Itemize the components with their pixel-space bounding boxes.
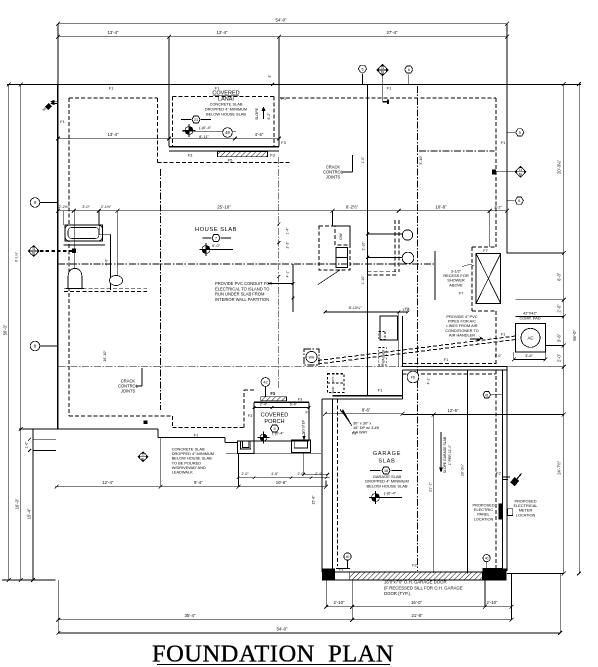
svg-text:16’-10”: 16’-10” <box>103 350 107 362</box>
svg-text:2’-1½”: 2’-1½” <box>101 205 112 209</box>
svg-text:21’-8”: 21’-8” <box>412 613 424 618</box>
svg-text:LOCATION: LOCATION <box>474 516 494 521</box>
svg-text:6’-0”: 6’-0” <box>556 272 561 281</box>
svg-text:F1: F1 <box>444 357 449 362</box>
svg-text:2’-10”: 2’-10” <box>334 600 346 605</box>
svg-text:2’-2”: 2’-2” <box>494 205 502 209</box>
svg-text:6’-1¼”: 6’-1¼” <box>15 251 19 262</box>
svg-text:27’-4”: 27’-4” <box>387 30 399 35</box>
svg-text:F3: F3 <box>188 153 193 158</box>
svg-text:3’-6”: 3’-6” <box>525 353 533 358</box>
svg-text:BELOW HOUSE SLAB: BELOW HOUSE SLAB <box>206 112 246 117</box>
svg-text:F1: F1 <box>405 307 409 311</box>
svg-text:40: 40 <box>485 557 489 561</box>
svg-text:SLOPE: SLOPE <box>255 107 259 120</box>
svg-text:OPT.: OPT. <box>331 376 335 383</box>
svg-text:8’-11”: 8’-11” <box>199 134 209 139</box>
svg-text:13’-4”: 13’-4” <box>108 30 120 35</box>
svg-text:LEADWALK: LEADWALK <box>172 470 193 475</box>
svg-text:WH: WH <box>309 356 315 360</box>
svg-text:B1: B1 <box>32 251 36 255</box>
svg-text:2’-10”: 2’-10” <box>487 600 499 605</box>
svg-text:F2: F2 <box>412 563 417 568</box>
svg-text:F3: F3 <box>270 391 274 395</box>
svg-text:(-)0’-4”: (-)0’-4” <box>384 491 397 496</box>
svg-text:(-)0’-4”: (-)0’-4” <box>272 431 284 435</box>
svg-text:24’-7½”: 24’-7½” <box>556 460 561 475</box>
svg-text:F1: F1 <box>501 332 506 337</box>
svg-text:F1: F1 <box>215 85 220 90</box>
svg-text:35’-4”: 35’-4” <box>185 613 197 618</box>
svg-text:F3: F3 <box>339 567 344 572</box>
svg-text:4’-1”: 4’-1” <box>286 270 290 278</box>
svg-text:F1: F1 <box>387 85 392 90</box>
svg-text:F3: F3 <box>352 432 356 436</box>
svg-text:HOUSE SLAB: HOUSE SLAB <box>195 227 237 233</box>
svg-text:16’-0”: 16’-0” <box>411 600 423 605</box>
svg-text:F3: F3 <box>248 414 252 418</box>
svg-text:F1: F1 <box>194 432 199 437</box>
svg-text:0’-0”: 0’-0” <box>212 243 221 248</box>
svg-text:8’-2½”: 8’-2½” <box>346 204 359 209</box>
svg-text:F2: F2 <box>496 471 501 476</box>
svg-text:1’-0”: 1’-0” <box>25 441 29 449</box>
svg-text:RUN UNDER SLAB FROM: RUN UNDER SLAB FROM <box>215 292 265 297</box>
svg-text:15’-8”: 15’-8” <box>312 495 316 505</box>
svg-text:ELECTRICAL TO ISLAND TO: ELECTRICAL TO ISLAND TO <box>215 286 269 291</box>
svg-text:40: 40 <box>346 555 350 559</box>
svg-text:10’-8”: 10’-8” <box>436 204 448 209</box>
svg-text:7: 7 <box>215 237 217 241</box>
svg-text:1” PER 12’-0”: 1” PER 12’-0” <box>448 445 452 466</box>
svg-text:6: 6 <box>408 68 410 72</box>
svg-text:4’-6”: 4’-6” <box>255 132 264 137</box>
svg-text:LOCATION: LOCATION <box>516 512 536 517</box>
svg-text:9’-4”: 9’-4” <box>194 480 203 485</box>
svg-text:ABOVE: ABOVE <box>449 282 463 287</box>
svg-text:56’-0”: 56’-0” <box>572 330 577 341</box>
svg-text:41: 41 <box>485 393 489 397</box>
svg-text:F3: F3 <box>281 96 286 101</box>
svg-text:2’-0”: 2’-0” <box>556 353 561 362</box>
svg-text:B1: B1 <box>141 457 145 461</box>
svg-text:INTERIOR WALL PARTITION: INTERIOR WALL PARTITION <box>215 297 269 302</box>
svg-text:JOINTS: JOINTS <box>121 389 136 394</box>
svg-text:COMP. PAD: COMP. PAD <box>519 315 540 320</box>
svg-text:PORCH: PORCH <box>264 419 284 425</box>
svg-text:COVERED: COVERED <box>261 413 289 419</box>
svg-text:3’-6”: 3’-6” <box>556 333 561 342</box>
svg-text:B1: B1 <box>519 172 523 176</box>
svg-text:PROVIDE PVC CONDUIT FOR: PROVIDE PVC CONDUIT FOR <box>215 281 273 286</box>
svg-text:21’-1”: 21’-1” <box>429 481 433 491</box>
svg-text:10’-6”: 10’-6” <box>276 480 288 485</box>
svg-text:5’-10”: 5’-10” <box>419 155 423 165</box>
svg-text:2’-2½”: 2’-2½” <box>59 205 70 209</box>
svg-text:54’-0”: 54’-0” <box>277 626 289 631</box>
svg-text:NO STEP: NO STEP <box>302 420 306 434</box>
svg-text:SLAB: SLAB <box>378 459 395 465</box>
svg-text:20’-3¼”: 20’-3¼” <box>556 159 561 174</box>
svg-text:FD: FD <box>411 376 416 380</box>
svg-text:48: 48 <box>225 130 230 135</box>
svg-text:6’-2”: 6’-2” <box>267 112 271 120</box>
svg-text:6: 6 <box>518 199 520 203</box>
svg-text:F7: F7 <box>483 248 488 253</box>
svg-text:DW: DW <box>339 233 343 240</box>
svg-text:FOUNDATION PLAN: FOUNDATION PLAN <box>152 641 394 667</box>
svg-text:WASHER: WASHER <box>382 349 386 364</box>
svg-text:18: 18 <box>384 469 388 473</box>
svg-text:AIR HANDLER: AIR HANDLER <box>449 332 475 337</box>
svg-text:8’-6”: 8’-6” <box>362 407 371 412</box>
svg-text:20’-3¼”: 20’-3¼” <box>461 463 465 476</box>
svg-text:56’-0”: 56’-0” <box>3 324 8 335</box>
svg-text:AC: AC <box>527 336 533 341</box>
svg-text:F3: F3 <box>492 567 497 572</box>
svg-text:JOINTS: JOINTS <box>326 175 341 180</box>
svg-text:5: 5 <box>361 67 363 71</box>
svg-text:SLOPE GARAGE SLAB: SLOPE GARAGE SLAB <box>443 436 447 473</box>
svg-text:6’-4”: 6’-4” <box>290 403 298 407</box>
svg-text:42: 42 <box>263 381 267 385</box>
svg-text:8’-10¼”: 8’-10¼” <box>349 306 363 310</box>
svg-text:F1: F1 <box>501 140 506 145</box>
svg-text:3’-0”: 3’-0” <box>82 205 90 209</box>
svg-text:12’-4”: 12’-4” <box>102 480 114 485</box>
svg-text:13’-4”: 13’-4” <box>217 30 229 35</box>
svg-text:2’-3”: 2’-3” <box>286 241 290 249</box>
svg-text:F1: F1 <box>305 410 309 414</box>
svg-text:21: 21 <box>194 118 198 122</box>
svg-text:1’-0”: 1’-0” <box>494 354 502 358</box>
svg-text:16’0”x7’0” O.H. GARAGE DOOR: 16’0”x7’0” O.H. GARAGE DOOR <box>384 580 447 585</box>
svg-text:5: 5 <box>519 131 521 135</box>
svg-text:F3: F3 <box>298 397 302 401</box>
svg-text:SINK: SINK <box>331 386 335 393</box>
svg-text:GARAGE: GARAGE <box>373 451 401 457</box>
svg-text:DOOR (TYP.).: DOOR (TYP.). <box>384 591 411 596</box>
svg-text:1’-4”: 1’-4” <box>286 227 290 235</box>
svg-text:F3: F3 <box>281 140 286 145</box>
svg-text:15’-4”: 15’-4” <box>27 508 32 519</box>
svg-text:2’-4”: 2’-4” <box>260 403 268 407</box>
svg-text:4’-6”: 4’-6” <box>105 258 109 266</box>
svg-text:B1: B1 <box>381 70 385 74</box>
svg-text:F3: F3 <box>270 153 275 158</box>
svg-text:25’-10”: 25’-10” <box>217 204 231 209</box>
svg-text:54’-0”: 54’-0” <box>276 17 288 22</box>
svg-text:13’-4”: 13’-4” <box>108 132 120 137</box>
svg-text:F1: F1 <box>60 119 65 124</box>
svg-text:2’-0”: 2’-0” <box>241 472 249 476</box>
svg-text:BELOW HOUSE SLAB: BELOW HOUSE SLAB <box>366 483 407 488</box>
svg-text:F1: F1 <box>378 388 383 393</box>
svg-text:12’-6”: 12’-6” <box>448 408 460 413</box>
svg-text:4’-1”: 4’-1” <box>427 377 431 385</box>
svg-text:2’-10”: 2’-10” <box>362 241 366 251</box>
svg-text:2’-0”: 2’-0” <box>556 304 561 313</box>
svg-text:F5: F5 <box>228 158 233 163</box>
svg-text:(-)0’-4”: (-)0’-4” <box>199 125 212 130</box>
svg-text:16’-0”: 16’-0” <box>15 498 20 509</box>
svg-text:F1: F1 <box>109 85 114 90</box>
svg-text:1’-0”: 1’-0” <box>361 156 365 164</box>
svg-text:1’-10”: 1’-10” <box>361 275 365 285</box>
svg-text:F7: F7 <box>459 291 464 296</box>
svg-text:4’-6”: 4’-6” <box>271 472 279 476</box>
svg-text:(F RECESSED SILL FOR O.H. GARA: (F RECESSED SILL FOR O.H. GARAGE <box>384 585 463 590</box>
